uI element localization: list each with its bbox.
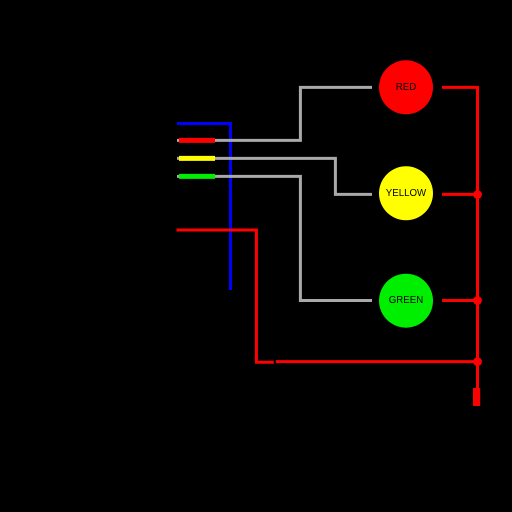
svg-text:RED: RED [396, 82, 416, 93]
svg-text:GREEN: GREEN [389, 295, 423, 306]
svg-text:YELLOW: YELLOW [386, 188, 427, 199]
